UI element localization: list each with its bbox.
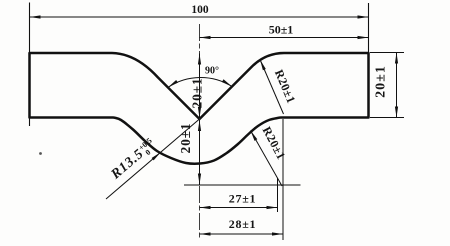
svg-text:R20±1: R20±1 (260, 124, 289, 162)
V-notch depth dimension 20±1 (upper) (199, 54, 201, 119)
right extension line (368, 3, 370, 118)
horizontal reference line at y=185 (184, 184, 301, 186)
svg-text:20±1: 20±1 (374, 65, 389, 98)
centerline (199, 24, 201, 240)
extension line top (right 20±1) (370, 52, 404, 54)
R13.5 leader arrowhead (152, 152, 161, 160)
extension line bottom (right 20±1) (370, 117, 404, 119)
left extension line (full height at left edge) (29, 3, 31, 127)
dimension 100 (30, 16, 369, 18)
extension line for 27±1 (277, 178, 279, 212)
90° angle arc (168, 77, 232, 87)
lower depth dimension 20±1 (199, 120, 201, 185)
svg-text:R20±1: R20±1 (272, 67, 299, 105)
R13.5 leader to bottom arc (106, 119, 200, 199)
svg-text:20±1: 20±1 (178, 123, 193, 154)
scan speck (39, 152, 42, 155)
svg-text:100: 100 (191, 4, 209, 16)
svg-text:28±1: 28±1 (229, 217, 256, 231)
R20±1 leader (lower, bottom fillet) (251, 131, 283, 187)
specimen outline (thick profile) (30, 53, 369, 164)
dimension 50±1 (200, 37, 369, 39)
svg-text:90°: 90° (205, 66, 219, 77)
extension line for 28±1 (282, 119, 284, 240)
svg-text:50±1: 50±1 (269, 23, 294, 37)
svg-text:20±1: 20±1 (190, 78, 205, 109)
R20±1 leader (upper, V flank fillet) (260, 60, 284, 115)
value label R13.5 +0.5/0 (107, 136, 159, 184)
svg-text:27±1: 27±1 (229, 192, 256, 206)
